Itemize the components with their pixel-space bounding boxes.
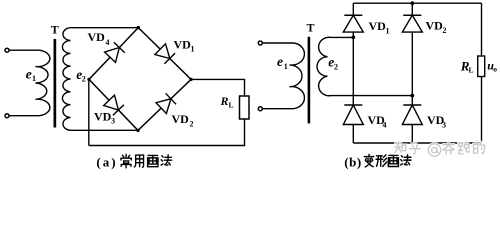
svg-text:1: 1 (386, 27, 390, 36)
svg-text:e: e (26, 66, 32, 81)
node branch1 secondary tap junction (b) (351, 36, 355, 40)
transformer T (b) secondary winding e2 (317, 37, 331, 95)
diode VD4 (a) (105, 48, 120, 63)
svg-text:T: T (307, 21, 315, 35)
svg-text:VD: VD (174, 38, 192, 52)
svg-text:(a): (a) (96, 155, 117, 170)
wire bridge right node to load top (a) (191, 79, 245, 96)
svg-text:VD: VD (369, 19, 387, 33)
svg-text:2: 2 (334, 63, 338, 72)
svg-text:2: 2 (82, 74, 86, 83)
diode VD1 (a) (155, 44, 170, 59)
transformer T (a) core (54, 39, 57, 128)
diode VD2 (a) (156, 99, 171, 114)
diode VD4 (b) (344, 104, 362, 106)
watermark text zhihu at benpaode (395, 142, 485, 156)
svg-text:4: 4 (106, 38, 110, 47)
node bridge left junction (a) (87, 78, 90, 81)
svg-text:o: o (493, 64, 497, 73)
watermark halo (395, 142, 485, 156)
svg-text:3: 3 (442, 121, 446, 130)
resistor RL (a) (240, 96, 250, 119)
diode VD3 (a) (104, 95, 119, 110)
caption (a) fa (161, 155, 172, 165)
node bridge right junction (a) (189, 78, 192, 81)
wire primary top lead (a) (9, 49, 39, 51)
svg-text:T: T (51, 23, 59, 37)
caption (a) chang (121, 154, 131, 167)
svg-text:L: L (469, 66, 474, 75)
wire branch1 (b) (352, 3, 354, 143)
resistor RL (b) (478, 56, 485, 77)
diode VD1 (b) (344, 14, 362, 16)
wire bottom rail (b) (353, 142, 481, 144)
diode VD3 (b) (403, 104, 421, 106)
caption (a) hua (148, 155, 158, 166)
node bridge bottom junction (a) (136, 129, 139, 132)
transformer T (right diagram) primary terminal bottom (258, 107, 262, 111)
wire secondary top to bridge top node (a) (71, 27, 139, 29)
svg-text:2: 2 (190, 120, 194, 129)
node bridge top junction (a) (137, 26, 140, 29)
transformer T (a) primary winding e1 (36, 50, 50, 116)
svg-text:e: e (277, 54, 283, 69)
wire load bottom to bottom rail (a) (89, 119, 245, 146)
wire bridge left node down to bottom rail (a) (88, 79, 90, 145)
wire secondary bottom to bridge bottom node (a) (71, 129, 139, 131)
caption (b) bian (364, 154, 373, 167)
svg-text:VD: VD (172, 112, 190, 126)
svg-text:1: 1 (32, 74, 36, 83)
wire secondary bottom tap to branch2 (b) (331, 95, 412, 97)
svg-text:4: 4 (383, 121, 387, 130)
svg-text:VD: VD (88, 30, 106, 44)
node branch2 top rail junction (b) (410, 1, 414, 5)
wire primary bottom lead (a) (9, 115, 39, 117)
diode VD2 (b) (403, 14, 421, 16)
transformer T (a) secondary winding e2 (62, 28, 70, 131)
svg-text:VD: VD (426, 19, 444, 33)
wire bridge diamond (a) (89, 28, 191, 131)
wire branch2 (b) (411, 3, 413, 143)
transformer T (b) primary winding e1 (290, 43, 305, 109)
caption (b) hua (388, 155, 398, 166)
svg-text:1: 1 (191, 45, 195, 54)
svg-text:R: R (220, 94, 229, 108)
wire right side load branch (b) (481, 3, 483, 143)
transformer T (left diagram) primary terminal bottom (5, 114, 9, 118)
svg-text:L: L (229, 101, 234, 110)
wire primary bottom lead (b) (262, 108, 294, 110)
caption (b) fa (401, 155, 411, 165)
caption (b) xing (376, 155, 387, 167)
transformer T (right diagram) primary terminal top (258, 41, 262, 45)
node branch2 secondary tap junction (b) (410, 94, 414, 98)
svg-text:3: 3 (111, 117, 115, 126)
svg-text:1: 1 (284, 62, 288, 71)
transformer T (left diagram) primary terminal top (5, 48, 9, 52)
svg-text:VD: VD (94, 110, 112, 124)
svg-text:(b): (b) (344, 155, 361, 170)
wire primary top lead (b) (262, 42, 294, 44)
wire top rail (b) (353, 2, 481, 4)
svg-text:2: 2 (443, 26, 447, 35)
caption (a) yong (134, 155, 143, 167)
wire secondary top tap to branch1 (b) (331, 36, 353, 38)
transformer T (b) core (308, 37, 311, 124)
